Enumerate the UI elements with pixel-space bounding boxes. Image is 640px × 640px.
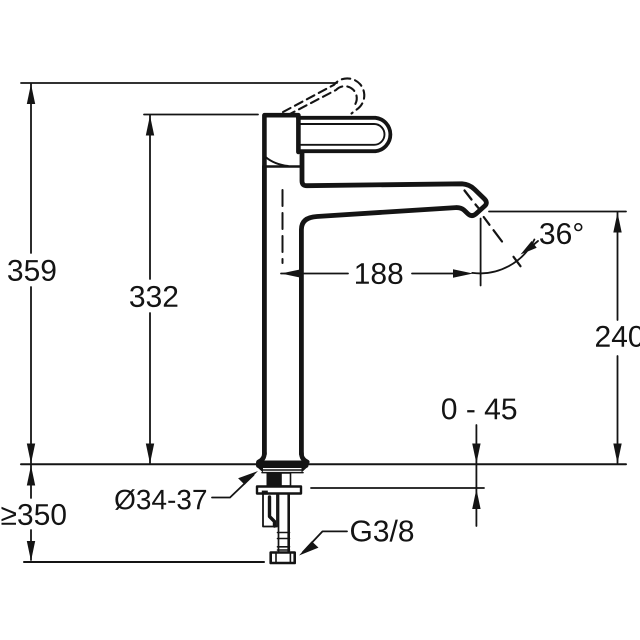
thread relief band 2 bbox=[278, 538, 290, 540]
thread relief band 3 bbox=[278, 546, 290, 548]
arrow 188 right bbox=[453, 269, 473, 277]
washer line 2 bbox=[262, 472, 303, 474]
bottom clearance reference line bbox=[24, 561, 264, 563]
leader line diameter 34-37 bbox=[212, 475, 254, 498]
arrow 359 top bbox=[27, 84, 35, 104]
hex nut facet right bbox=[289, 553, 291, 564]
spout arm and column right edge bbox=[301, 152, 486, 454]
aerator dash inside spout tip 1 bbox=[465, 191, 472, 200]
aerator axis dash below tip 2 bbox=[494, 230, 503, 241]
base flare left bbox=[259, 453, 265, 462]
spout height reference line bbox=[489, 211, 626, 213]
label 240 bbox=[596, 326, 640, 347]
cartridge head body bbox=[264, 115, 298, 166]
base ring left lip bbox=[258, 468, 264, 473]
label >=350 bbox=[2, 504, 66, 525]
mounting plate lip bbox=[262, 491, 268, 495]
dimension line 240 bbox=[617, 213, 619, 464]
clamp clip outline bbox=[263, 495, 277, 527]
dimension line 332 bbox=[144, 115, 258, 464]
counter bottom line (max thickness) bbox=[311, 487, 484, 489]
dimension line 0-45 bbox=[475, 425, 477, 526]
angle arc 36 deg bbox=[472, 240, 534, 274]
label G3/8 bbox=[351, 520, 413, 542]
arrow dia 34-37 leader bbox=[238, 471, 258, 485]
arrow 240 bottom bbox=[613, 444, 621, 464]
dimension line 188 bbox=[281, 273, 455, 275]
thread relief band 1 bbox=[278, 532, 290, 534]
arrow 36 deg leader bbox=[521, 241, 537, 255]
arrow 332 top bbox=[146, 116, 154, 136]
aerator axis dash below tip 1 bbox=[484, 217, 490, 225]
faucet drawing bbox=[256, 78, 486, 563]
dimension labels drawn as glyph paths bbox=[2, 223, 640, 542]
column left edge bbox=[262, 167, 267, 455]
leader line G3/8 bbox=[303, 531, 347, 552]
label 359 bbox=[8, 260, 56, 281]
clamp hook bbox=[270, 497, 275, 526]
shank right half outline bbox=[281, 473, 291, 486]
label 0 - 45 bbox=[442, 398, 516, 419]
arrow 188 left bbox=[281, 269, 301, 277]
hex nut outline bbox=[271, 553, 295, 564]
supply pipe left edge bbox=[278, 494, 280, 552]
base ring right lip bbox=[302, 468, 308, 473]
washer line 1 bbox=[262, 469, 303, 471]
arrow G3/8 leader bbox=[299, 541, 319, 555]
top reference line (handle raised height) bbox=[21, 82, 337, 84]
counter top line bbox=[21, 463, 626, 465]
threaded shank (black section) bbox=[267, 473, 282, 486]
leader line 36 deg bbox=[526, 241, 538, 251]
arrow 0-45 up bbox=[472, 489, 480, 509]
aerator axis dash below tip 3 bbox=[514, 257, 521, 266]
dashed raised handle outline (inner) bbox=[287, 86, 357, 115]
arrow >=350 top bbox=[27, 466, 35, 486]
dimension line 359 bbox=[30, 84, 32, 463]
base ring bbox=[256, 461, 309, 469]
label 188 bbox=[356, 263, 402, 284]
label 36 deg bbox=[540, 223, 583, 244]
base flare right bbox=[301, 453, 307, 462]
mounting plate bbox=[257, 487, 301, 494]
dashed raised handle outline (outer) bbox=[283, 78, 364, 113]
vertical extension line from spout tip bbox=[480, 219, 482, 286]
aerator dash inside spout tip 2 bbox=[476, 205, 480, 209]
label 332 bbox=[130, 286, 177, 307]
arrowheads bbox=[27, 84, 622, 561]
thread relief band 4 bbox=[278, 549, 290, 551]
arrow 240 top bbox=[613, 213, 621, 233]
handle loop outer bbox=[298, 118, 390, 151]
faucet centerline (dashed) bbox=[282, 190, 284, 263]
label diameter 34-37 bbox=[115, 489, 206, 510]
head flare curve bbox=[266, 157, 289, 166]
handle loop inner line bbox=[301, 124, 385, 145]
supply pipe right edge bbox=[287, 494, 290, 552]
hex nut facet left bbox=[275, 553, 277, 564]
dimension line >=350 bbox=[30, 466, 32, 561]
arrow 359 bottom bbox=[27, 444, 35, 464]
head/body joint line bbox=[264, 165, 301, 167]
arrow 0-45 down bbox=[472, 444, 480, 464]
arrow 332 bottom bbox=[146, 444, 154, 464]
arrow >=350 bottom bbox=[27, 541, 35, 561]
